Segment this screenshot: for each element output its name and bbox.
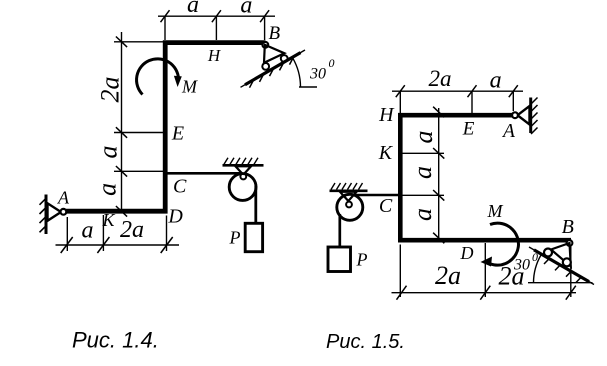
incline hatching bbox=[250, 57, 294, 88]
svg-text:30: 30 bbox=[309, 65, 326, 82]
inner dimension ticks (fig 1.5) bbox=[433, 107, 444, 244]
svg-text:30: 30 bbox=[513, 256, 530, 273]
bottom dimension ticks (fig 1.5) bbox=[397, 286, 576, 300]
pulley wheel bbox=[229, 174, 256, 201]
svg-text:0: 0 bbox=[329, 56, 335, 70]
30 degree arc and baseline (fig 1.5) bbox=[528, 255, 593, 283]
frame beam B-H-E-C-D-A (bent bar) bbox=[66, 43, 266, 212]
svg-text:M: M bbox=[487, 201, 504, 221]
top dimension ticks (fig 1.5) bbox=[396, 85, 518, 97]
svg-text:a: a bbox=[408, 208, 437, 221]
svg-text:A: A bbox=[501, 121, 515, 142]
svg-text:K: K bbox=[101, 210, 115, 230]
top dimension ticks bbox=[161, 10, 270, 22]
svg-text:a: a bbox=[82, 217, 94, 243]
roller support B (fig 1.5): triangle bracket bbox=[551, 243, 571, 267]
inner dimension line (fig 1.5) bbox=[403, 108, 445, 240]
bottom dimension line bbox=[56, 215, 180, 251]
svg-text:2a: 2a bbox=[429, 66, 452, 91]
roller support B: roller 2 bbox=[281, 55, 288, 62]
svg-text:a: a bbox=[490, 67, 502, 93]
roller support B: roller 1 bbox=[262, 63, 269, 70]
svg-text:D: D bbox=[460, 243, 474, 263]
svg-text:P: P bbox=[229, 228, 241, 248]
weight P rectangle (fig 1.5) bbox=[328, 247, 351, 272]
svg-text:a: a bbox=[187, 0, 199, 18]
moment M arrowhead bbox=[174, 76, 182, 87]
svg-text:0: 0 bbox=[532, 250, 538, 264]
svg-text:M: M bbox=[181, 77, 198, 97]
bottom dimension line (fig 1.5) bbox=[392, 243, 577, 297]
svg-text:a: a bbox=[240, 0, 252, 18]
left dimension line bbox=[114, 32, 163, 211]
svg-text:C: C bbox=[379, 195, 393, 217]
pin support A (fig 1.5): wall + triangle bbox=[518, 98, 538, 135]
svg-text:A: A bbox=[57, 188, 70, 208]
left dimension ticks bbox=[116, 37, 127, 217]
roller support B: triangle bracket bbox=[264, 45, 284, 63]
svg-text:Рис. 1.4.: Рис. 1.4. bbox=[72, 328, 159, 353]
rope C to pulley (fig 1.5) bbox=[353, 194, 401, 196]
svg-text:2a: 2a bbox=[96, 77, 125, 103]
inclined surface at B (fig 1.5) bbox=[529, 247, 594, 285]
rope C to pulley bbox=[167, 172, 242, 175]
30 degree arc and baseline bbox=[293, 58, 317, 87]
pulley wheel (fig 1.5) bbox=[337, 194, 363, 220]
svg-text:2a: 2a bbox=[435, 261, 461, 290]
svg-text:a: a bbox=[93, 183, 122, 196]
svg-text:K: K bbox=[378, 142, 394, 164]
svg-text:a: a bbox=[408, 166, 437, 179]
inclined surface at B bbox=[241, 50, 306, 87]
svg-text:C: C bbox=[173, 175, 187, 197]
pulley ceiling bracket (fig 1.5) bbox=[330, 183, 368, 201]
pulley hub pin (fig 1.5) bbox=[346, 202, 352, 208]
incline hatching (fig 1.5) bbox=[544, 258, 582, 282]
svg-text:E: E bbox=[171, 123, 184, 145]
svg-text:E: E bbox=[462, 119, 475, 140]
moment M arc bbox=[137, 59, 179, 95]
roller support B: pin circle bbox=[262, 42, 268, 48]
frame beam A-E-H-K-C-D-B (bent bar) bbox=[400, 115, 571, 240]
svg-text:a: a bbox=[409, 131, 438, 144]
pulley hub pin bbox=[240, 174, 246, 180]
pin circle A (fig 1.5) bbox=[512, 112, 518, 118]
top dimension line (fig 1.5) bbox=[392, 91, 523, 113]
svg-text:P: P bbox=[356, 250, 368, 270]
weight P rectangle bbox=[245, 223, 262, 251]
rope down to weight bbox=[254, 186, 257, 224]
svg-text:2a: 2a bbox=[120, 217, 144, 243]
svg-text:Рис. 1.5.: Рис. 1.5. bbox=[326, 331, 405, 353]
moment M arc (fig 1.5) bbox=[485, 223, 518, 265]
pin support A (wall + triangle + pin) bbox=[40, 195, 62, 235]
svg-text:H: H bbox=[207, 46, 222, 65]
top dimension line bbox=[158, 16, 275, 40]
svg-text:B: B bbox=[562, 216, 574, 238]
pin circle A bbox=[61, 209, 67, 215]
roller support B (fig 1.5): roller 1 bbox=[544, 249, 552, 257]
pulley ceiling bracket bbox=[223, 158, 264, 175]
svg-text:D: D bbox=[167, 205, 183, 227]
bottom dimension ticks bbox=[61, 237, 173, 253]
moment M arrowhead (fig 1.5) bbox=[481, 257, 493, 267]
roller support B (fig 1.5): roller 2 bbox=[563, 258, 571, 266]
roller support B (fig 1.5): pin circle bbox=[567, 240, 573, 246]
svg-text:B: B bbox=[268, 23, 280, 44]
rope down to weight (fig 1.5) bbox=[338, 214, 341, 248]
svg-text:a: a bbox=[94, 146, 123, 159]
svg-text:H: H bbox=[378, 104, 395, 126]
